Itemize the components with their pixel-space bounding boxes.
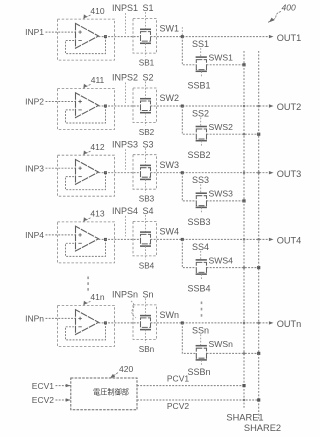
transmission gate SWS3: top gate bar bbox=[196, 192, 207, 194]
wire SWS1 to share bus 1 bbox=[207, 64, 245, 66]
op-amp 410 triangle bbox=[76, 23, 99, 48]
svg-text:SWS2: SWS2 bbox=[209, 122, 234, 132]
control line SS2 to top gate of SWS2 bbox=[200, 118, 202, 127]
op-amp minus input mark bbox=[78, 176, 81, 178]
crossing dots of OUT2 wire over share buses bbox=[243, 105, 245, 107]
wire SWn to output OUTn bbox=[151, 322, 269, 324]
transmission gate SWn: body bbox=[141, 318, 151, 328]
control line SB1 from bottom gate bbox=[145, 43, 147, 56]
svg-text:S2: S2 bbox=[142, 73, 153, 83]
leader from INPS4 label to wire bbox=[125, 216, 127, 237]
transmission gate SWS2: bottom gate bar bbox=[196, 140, 207, 142]
switch SWn dashed outline bbox=[133, 305, 157, 340]
node: junction SWSn wire on share bus 2 bbox=[257, 352, 260, 355]
wire SW2 to output OUT2 bbox=[151, 105, 269, 107]
leader from INPSn label to wire bbox=[131, 301, 136, 318]
transmission gate SWS4: top gate bar bbox=[196, 259, 207, 261]
op-amp plus input mark bbox=[78, 100, 81, 103]
op-amp buffer block 410 dashed outline bbox=[58, 19, 115, 60]
share bus 1 (SHARE1) vertical wire bbox=[243, 51, 245, 386]
svg-text:SW1: SW1 bbox=[160, 24, 180, 34]
wire SWS2 to share bus 2 bbox=[207, 133, 259, 135]
transmission gate SWS2: top gate bar bbox=[196, 126, 207, 128]
transmission gate SW1: bottom gate bar bbox=[140, 42, 151, 44]
control line SB4 from bottom gate bbox=[145, 246, 147, 259]
feedback wire from output to inverting input of 410 bbox=[66, 37, 106, 54]
svg-text:SW3: SW3 bbox=[160, 160, 180, 170]
wire share branch down from OUT2 to switch SWS2 bbox=[182, 106, 196, 134]
crossing dot of SWSn wire over bus 1 bbox=[243, 352, 245, 354]
ellipsis dots between row 4 and row n (share switch column) bbox=[201, 302, 203, 317]
svg-text:412: 412 bbox=[90, 142, 104, 152]
svg-text:SB2: SB2 bbox=[139, 128, 155, 137]
crossing dot of SWS2 wire over bus 1 bbox=[243, 133, 245, 135]
transmission gate SWS1: top gate bar bbox=[196, 56, 207, 58]
svg-text:SB3: SB3 bbox=[139, 195, 155, 204]
wire PCV2 from block 420 to share bus 2 bbox=[137, 399, 259, 401]
wire INPn to op-amp non-inverting input bbox=[46, 317, 76, 319]
arrowhead on OUTn wire bbox=[269, 321, 274, 324]
wire SW3 to output OUT3 bbox=[151, 172, 269, 174]
svg-text:411: 411 bbox=[91, 75, 105, 85]
svg-text:SBn: SBn bbox=[139, 345, 155, 354]
op-amp 411 triangle bbox=[76, 93, 99, 118]
control line SSn to top gate of SWSn bbox=[200, 334, 202, 345]
leader from INPS3 label to wire bbox=[125, 149, 127, 170]
wire SW1 to output OUT1 bbox=[151, 36, 269, 38]
transmission gate SWSn: bottom gate bar bbox=[196, 359, 207, 361]
control block 420 box bbox=[71, 378, 137, 410]
svg-text:S4: S4 bbox=[142, 206, 153, 216]
transmission gate SWSn: top gate bar bbox=[196, 345, 207, 347]
transmission gate SW2: body bbox=[141, 101, 151, 111]
svg-text:SSB1: SSB1 bbox=[187, 81, 210, 91]
transmission gate SWS3: bottom gate bar bbox=[196, 206, 207, 208]
control line SB3 from bottom gate bbox=[145, 179, 147, 192]
node: junction of OUT2 wire and share branch bbox=[181, 105, 184, 108]
transmission gate SW2: top gate bar bbox=[140, 98, 151, 100]
crossing dots of OUT4 wire over share buses bbox=[243, 238, 245, 240]
control line SSB4 from bottom gate bbox=[200, 274, 202, 279]
svg-text:電圧制御部: 電圧制御部 bbox=[93, 387, 129, 396]
wire SWS3 to share bus 1 bbox=[207, 200, 245, 202]
control line SS1 to top gate of SWS1 bbox=[200, 48, 202, 57]
wire ECV2 into block 420 bbox=[56, 399, 71, 401]
svg-text:SWS4: SWS4 bbox=[209, 255, 234, 265]
ellipsis dots between row 4 and row n (amplifier column) bbox=[87, 277, 89, 291]
control line SB2 from bottom gate bbox=[145, 113, 147, 126]
node: junction SWS2 wire on share bus 2 bbox=[257, 133, 260, 136]
wire SWS4 to share bus 2 bbox=[207, 267, 259, 269]
svg-text:SHARE1: SHARE1 bbox=[226, 412, 263, 422]
wire share branch down from OUT3 to switch SWS3 bbox=[182, 173, 196, 201]
svg-text:SB1: SB1 bbox=[139, 59, 155, 68]
node: op-amp output / feedback tap junction bbox=[104, 35, 107, 38]
svg-text:SS4: SS4 bbox=[192, 242, 209, 252]
switch SW2 dashed outline bbox=[133, 88, 157, 123]
transmission gate SW2: bottom gate bar bbox=[140, 112, 151, 114]
svg-text:INPS3: INPS3 bbox=[112, 139, 138, 149]
svg-text:OUTn: OUTn bbox=[277, 319, 302, 329]
node: junction of OUT4 wire and share branch bbox=[181, 238, 184, 241]
leader tick above wire near SW1 junction bbox=[181, 27, 183, 35]
node: junction SWS3 wire on share bus 1 bbox=[242, 199, 245, 202]
transmission gate SWSn: body bbox=[196, 348, 206, 358]
arrowhead ECV1 bbox=[66, 384, 71, 387]
control line S1 to top gate of SW1 bbox=[145, 12, 147, 29]
transmission gate SWS3: body bbox=[196, 196, 206, 206]
crossing dot of SWS4 wire over bus 1 bbox=[243, 267, 245, 269]
op-amp buffer block 413 dashed outline bbox=[58, 222, 115, 263]
svg-text:SSBn: SSBn bbox=[187, 367, 210, 377]
svg-text:INPS1: INPS1 bbox=[112, 3, 138, 13]
arrowhead ECV2 bbox=[66, 398, 71, 401]
svg-text:OUT2: OUT2 bbox=[277, 102, 302, 112]
svg-text:INP1: INP1 bbox=[25, 27, 44, 37]
share bus 1 lower segment to end bbox=[243, 386, 245, 409]
feedback wire from output to inverting input of 41n bbox=[66, 323, 106, 340]
svg-text:400: 400 bbox=[282, 3, 296, 13]
wire INP3 to op-amp non-inverting input bbox=[46, 167, 76, 169]
svg-text:Sn: Sn bbox=[142, 290, 153, 300]
op-amp minus input mark bbox=[78, 242, 81, 244]
svg-text:SW4: SW4 bbox=[160, 227, 180, 237]
op-amp plus input mark bbox=[78, 317, 81, 320]
node: junction of OUTn wire and share branch bbox=[181, 321, 184, 324]
wire PCV1 from block 420 to share bus 1 bbox=[137, 385, 244, 387]
svg-text:INP2: INP2 bbox=[25, 97, 44, 107]
svg-text:ECV2: ECV2 bbox=[32, 395, 54, 405]
svg-text:ECV1: ECV1 bbox=[32, 381, 54, 391]
svg-text:INP4: INP4 bbox=[25, 230, 44, 240]
wire op-amp output to switch SW1 bbox=[99, 36, 141, 38]
svg-text:410: 410 bbox=[90, 6, 104, 16]
wire INP1 to op-amp non-inverting input bbox=[46, 31, 76, 33]
transmission gate SW1: body bbox=[141, 32, 151, 41]
crossing dots of OUT3 wire over share buses bbox=[243, 172, 245, 174]
op-amp plus input mark bbox=[78, 30, 81, 33]
wire INP2 to op-amp non-inverting input bbox=[46, 101, 76, 103]
arrowhead on OUT3 wire bbox=[269, 171, 274, 174]
svg-text:INPS4: INPS4 bbox=[112, 206, 138, 216]
wire op-amp output to switch SW3 bbox=[99, 172, 141, 174]
node: junction SWS4 wire on share bus 2 bbox=[257, 266, 260, 269]
svg-text:420: 420 bbox=[119, 364, 133, 374]
leader from INPS1 label to wire bbox=[125, 13, 127, 33]
share bus 2 (SHARE2) vertical wire bbox=[258, 51, 260, 400]
arrowhead on OUT2 wire bbox=[269, 104, 274, 107]
wire SWSn to share bus 2 bbox=[207, 352, 259, 354]
svg-text:SSB4: SSB4 bbox=[187, 284, 210, 294]
svg-text:SSn: SSn bbox=[192, 325, 209, 335]
svg-text:SS2: SS2 bbox=[192, 108, 209, 118]
node: op-amp output / feedback tap junction bbox=[104, 238, 107, 241]
svg-text:PCV1: PCV1 bbox=[167, 374, 189, 384]
op-amp minus input mark bbox=[78, 109, 81, 111]
transmission gate SWS2: body bbox=[196, 129, 206, 139]
svg-text:SWn: SWn bbox=[160, 310, 180, 320]
wire op-amp output to switch SWn bbox=[99, 322, 141, 324]
control line SS3 to top gate of SWS3 bbox=[200, 184, 202, 193]
op-amp 412 triangle bbox=[76, 160, 99, 185]
svg-text:SS1: SS1 bbox=[192, 39, 209, 49]
op-amp plus input mark bbox=[78, 233, 81, 236]
control line S3 to top gate of SW3 bbox=[145, 148, 147, 165]
share bus 2 lower segment to end bbox=[258, 400, 260, 420]
svg-text:413: 413 bbox=[90, 209, 104, 219]
op-amp buffer block 41n dashed outline bbox=[58, 305, 115, 346]
op-amp minus input mark bbox=[78, 40, 81, 42]
node: junction of OUT1 wire and share branch bbox=[181, 35, 184, 38]
control line Sn to top gate of SWn bbox=[145, 298, 147, 315]
control line S2 to top gate of SW2 bbox=[145, 82, 147, 99]
node: junction of OUT3 wire and share branch bbox=[181, 171, 184, 174]
transmission gate SWS4: bottom gate bar bbox=[196, 273, 207, 275]
wire SW4 to output OUT4 bbox=[151, 238, 269, 240]
op-amp 41n triangle bbox=[76, 310, 99, 335]
wire op-amp output to switch SW4 bbox=[99, 238, 141, 240]
feedback wire from output to inverting input of 412 bbox=[66, 173, 106, 190]
svg-text:SW2: SW2 bbox=[160, 93, 180, 103]
node: PCV2 junction on share bus 2 bbox=[257, 398, 260, 401]
arrowhead on OUT1 wire bbox=[269, 35, 274, 38]
svg-text:OUT4: OUT4 bbox=[277, 236, 302, 246]
transmission gate SW4: bottom gate bar bbox=[140, 245, 151, 247]
node: op-amp output / feedback tap junction bbox=[104, 171, 107, 174]
op-amp buffer block 411 dashed outline bbox=[58, 89, 115, 130]
node: op-amp output / feedback tap junction bbox=[104, 321, 107, 324]
switch SW4 dashed outline bbox=[133, 221, 157, 256]
figure reference label 400 with squiggle leader arrow bbox=[268, 3, 296, 23]
node: junction SWS1 wire on share bus 1 bbox=[242, 63, 245, 66]
svg-text:SSB2: SSB2 bbox=[187, 150, 210, 160]
svg-text:INP3: INP3 bbox=[25, 163, 44, 173]
crossing dot of PCV2 wire over bus 1 bbox=[243, 399, 245, 401]
switch SW1 dashed outline bbox=[133, 19, 157, 54]
transmission gate SW3: body bbox=[141, 168, 151, 178]
svg-text:SSB3: SSB3 bbox=[187, 217, 210, 227]
svg-text:SWSn: SWSn bbox=[209, 339, 234, 349]
svg-text:S3: S3 bbox=[142, 139, 153, 149]
wire share branch down from OUT1 to switch SWS1 bbox=[182, 37, 196, 65]
transmission gate SWn: bottom gate bar bbox=[140, 329, 151, 331]
control line S4 to top gate of SW4 bbox=[145, 215, 147, 232]
control line SBn from bottom gate bbox=[145, 330, 147, 343]
svg-text:INPS2: INPS2 bbox=[112, 73, 138, 83]
op-amp plus input mark bbox=[78, 167, 81, 170]
control line SSB2 from bottom gate bbox=[200, 141, 202, 146]
svg-text:SWS3: SWS3 bbox=[209, 189, 234, 199]
svg-text:INPn: INPn bbox=[25, 314, 44, 324]
op-amp minus input mark bbox=[78, 326, 81, 328]
svg-text:SB4: SB4 bbox=[139, 261, 155, 270]
svg-text:SHARE2: SHARE2 bbox=[244, 423, 281, 433]
transmission gate SW3: top gate bar bbox=[140, 164, 151, 166]
svg-text:SS3: SS3 bbox=[192, 175, 209, 185]
op-amp buffer block 412 dashed outline bbox=[58, 155, 115, 196]
transmission gate SW4: top gate bar bbox=[140, 231, 151, 233]
wire op-amp output to switch SW2 bbox=[99, 105, 141, 107]
leader from INPS2 label to wire bbox=[125, 83, 127, 104]
transmission gate SWS1: body bbox=[196, 60, 206, 70]
control line SS4 to top gate of SWS4 bbox=[200, 251, 202, 260]
wire INP4 to op-amp non-inverting input bbox=[46, 234, 76, 236]
svg-text:INPSn: INPSn bbox=[112, 290, 138, 300]
wire ECV1 into block 420 bbox=[56, 385, 71, 387]
svg-text:OUT3: OUT3 bbox=[277, 169, 302, 179]
transmission gate SWS1: bottom gate bar bbox=[196, 70, 207, 72]
feedback wire from output to inverting input of 413 bbox=[66, 239, 106, 256]
control line SSBn from bottom gate bbox=[200, 360, 202, 365]
transmission gate SWn: top gate bar bbox=[140, 315, 151, 317]
feedback wire from output to inverting input of 411 bbox=[66, 106, 106, 123]
transmission gate SW3: bottom gate bar bbox=[140, 178, 151, 180]
transmission gate SW4: body bbox=[141, 234, 151, 244]
svg-text:SWS1: SWS1 bbox=[209, 53, 234, 63]
switch SW3 dashed outline bbox=[133, 155, 157, 190]
svg-text:OUT1: OUT1 bbox=[277, 33, 302, 43]
control line SSB3 from bottom gate bbox=[200, 207, 202, 212]
svg-text:41n: 41n bbox=[90, 292, 104, 302]
wire share branch down from OUT4 to switch SWS4 bbox=[182, 239, 196, 267]
svg-text:PCV2: PCV2 bbox=[167, 401, 189, 411]
op-amp 413 triangle bbox=[76, 226, 99, 251]
wire share branch down from OUTn to switch SWSn bbox=[182, 323, 196, 354]
transmission gate SWS4: body bbox=[196, 262, 206, 272]
control line SSB1 from bottom gate bbox=[200, 71, 202, 76]
node: PCV1 junction on share bus 1 bbox=[242, 384, 245, 387]
transmission gate SW1: top gate bar bbox=[140, 28, 151, 30]
node: op-amp output / feedback tap junction bbox=[104, 105, 107, 108]
crossing dots of OUTn wire over share buses bbox=[243, 322, 245, 324]
arrowhead on OUT4 wire bbox=[269, 238, 274, 241]
svg-text:S1: S1 bbox=[142, 3, 153, 13]
